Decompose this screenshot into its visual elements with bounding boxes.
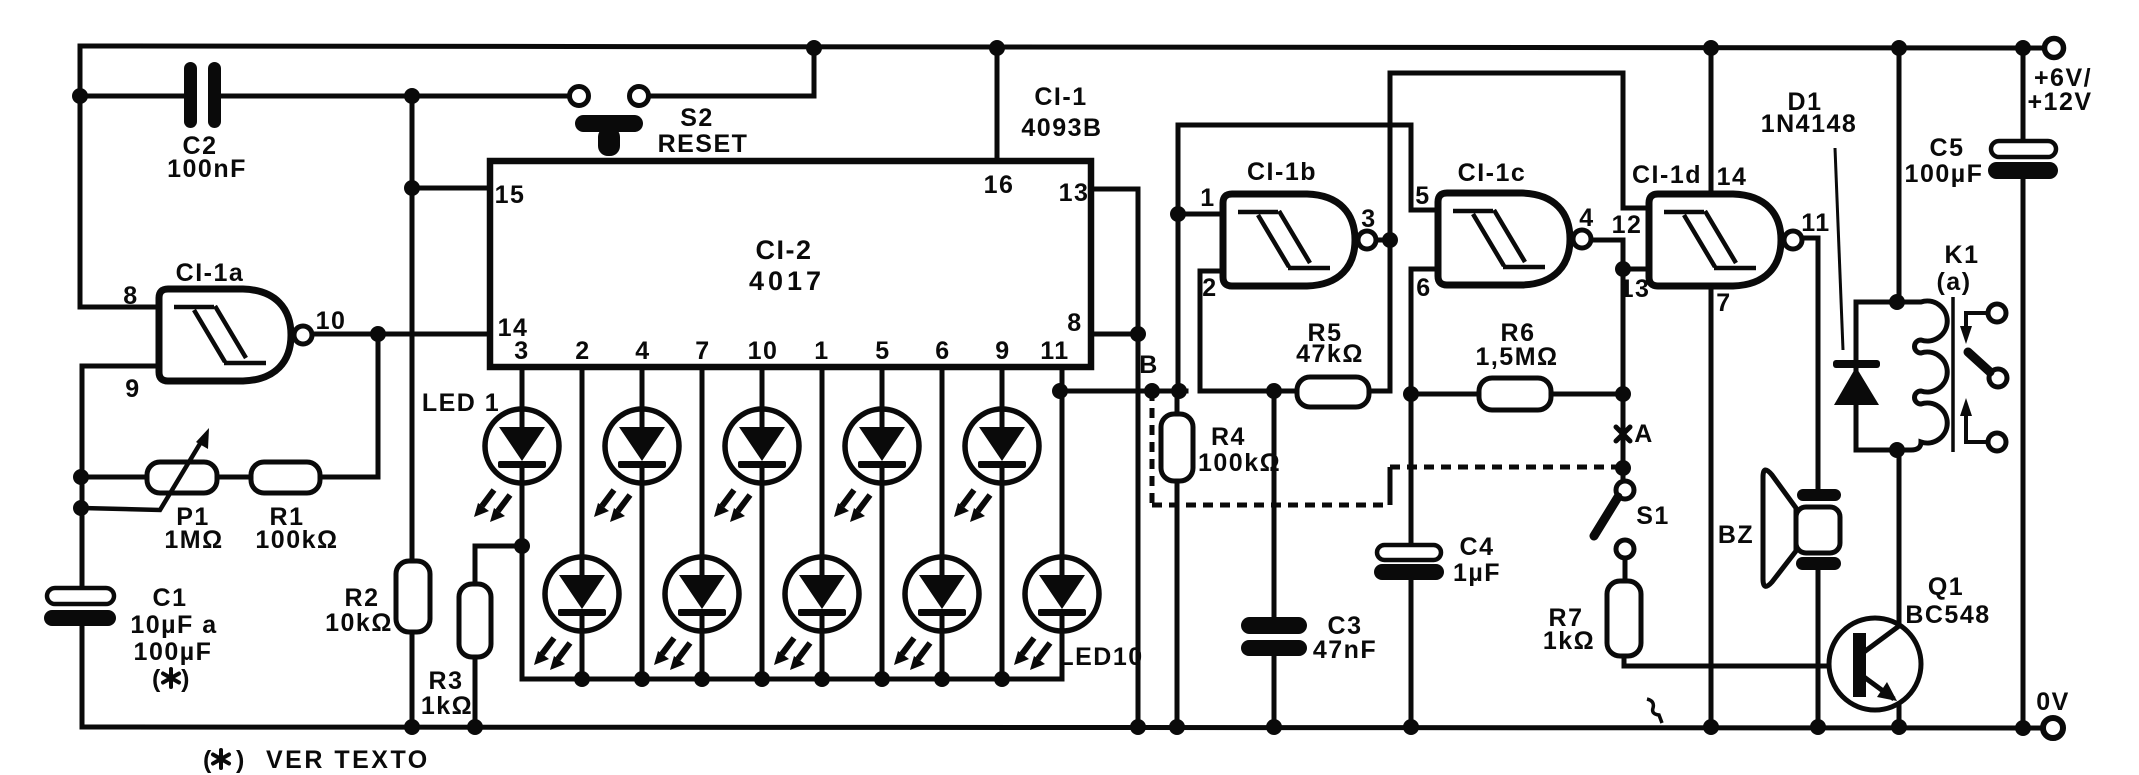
wire pin8 CI-1a [80,305,160,310]
svg-text:10: 10 [316,307,347,335]
svg-text:K1: K1 [1945,241,1980,269]
LED8 [894,557,979,670]
relay K1 armature link line [1951,297,1955,452]
svg-text:6: 6 [1416,274,1431,302]
potentiometer P1 [82,428,217,510]
terminal +6V/+12V [2045,39,2064,58]
capacitor C1 [44,588,116,626]
wire R3 to ground [473,657,478,727]
wire P1 to R1 [217,475,251,480]
svg-text:C5: C5 [1930,134,1965,162]
buzzer BZ [1763,470,1841,586]
svg-text:C4: C4 [1460,533,1495,561]
svg-text:8: 8 [1067,309,1082,337]
wire pin2 CI-1b [1200,271,1222,391]
wire LED column pin7 [700,367,705,679]
wire LED column pin4 [640,367,645,679]
svg-text:7: 7 [695,337,710,365]
svg-text:1kΩ: 1kΩ [1543,627,1595,655]
wire R3 to LED1 line [475,546,522,584]
svg-text:47nF: 47nF [1313,636,1377,664]
svg-text:5: 5 [1415,182,1430,210]
svg-text:(a): (a) [1936,268,1971,296]
svg-text:1µF: 1µF [1453,559,1501,587]
wire left vertical upper [78,46,83,307]
wire C2 line y=96 [80,94,570,99]
star in C1 note [163,669,179,687]
switch S1 [1594,481,1634,558]
svg-text:CI-2: CI-2 [755,235,812,265]
svg-text:7: 7 [1716,289,1731,317]
wire pin6 CI-1c [1411,269,1437,394]
IC CI-2 4017 [490,161,1091,367]
svg-text:100µF: 100µF [134,638,213,666]
svg-text:LED 1: LED 1 [422,389,500,417]
svg-text:2: 2 [1202,274,1217,302]
svg-text:+12V: +12V [2027,88,2092,116]
wire LED column pin10 [760,367,765,679]
svg-text:BC548: BC548 [1905,601,1990,629]
nand gate CI-1c [1438,193,1591,285]
svg-text:0V: 0V [2036,688,2070,716]
relay K1 contacts [1960,304,2007,451]
LED9 [954,409,1039,522]
svg-text:CI-1d: CI-1d [1632,161,1702,189]
wire LED cathode bus [522,677,1062,682]
svg-text:4: 4 [635,337,650,365]
wire node B horizontal [1062,389,1186,394]
wire output11 to buzzer [1805,238,1818,489]
capacitor C2 [184,62,221,128]
wire LED column pin9 [1000,367,1005,679]
svg-text:C1: C1 [153,584,188,612]
resistor R1 [251,462,320,493]
svg-text:11: 11 [1040,337,1069,365]
svg-text:5: 5 [875,337,890,365]
LED10 [1014,557,1099,670]
svg-text:9: 9 [125,375,140,403]
switch S2 [570,87,649,157]
svg-text:A: A [1634,420,1654,448]
svg-text:RESET: RESET [658,130,749,158]
svg-text:R2: R2 [345,584,380,612]
wire output 10 to pin14 [312,332,490,337]
wire S2 to rail [649,48,814,96]
resistor R5 [1297,377,1369,407]
svg-text:13: 13 [1620,275,1651,303]
svg-text:B: B [1139,351,1159,379]
svg-text:100kΩ: 100kΩ [255,526,338,554]
svg-text:1: 1 [814,337,829,365]
svg-text:13: 13 [1059,179,1090,207]
svg-text:S2: S2 [680,104,714,132]
svg-text:BZ: BZ [1718,521,1754,549]
svg-text:1: 1 [1200,184,1215,212]
wire LED column pin2 [580,367,585,679]
wire pin1 CI-1b stub [1178,212,1222,217]
wire C1 to ground [80,626,85,727]
svg-text:2: 2 [575,337,590,365]
wire LED column pin3 [520,367,525,679]
wire pin7 CI-1d to ground [1709,285,1714,727]
resistor R4 [1161,414,1193,481]
wire output3 stub [1377,238,1390,243]
wire C4 leads [1409,394,1414,727]
resistor R6 [1479,378,1551,410]
wire buzzer to ground [1816,570,1821,727]
svg-text:100nF: 100nF [167,155,247,183]
svg-text:1N4148: 1N4148 [1761,110,1858,138]
svg-text:1,5MΩ: 1,5MΩ [1475,343,1558,371]
small print artifact squiggle [1647,699,1662,723]
svg-text:CI-1b: CI-1b [1247,158,1317,186]
wire R6 net [1411,392,1623,397]
capacitor C4 [1374,545,1444,580]
op-amp U1: nand gate CI-1a [159,289,312,381]
wire pin1 CI-1b vertical [1176,125,1181,391]
wire pin16 4017 [995,48,1000,161]
wire C5 leads [2021,48,2026,727]
relay K1 coil [1897,301,1947,450]
svg-text:100µF: 100µF [1905,160,1984,188]
wire P1 left [82,475,147,480]
svg-text:(: ( [203,746,213,774]
terminal 0V [2043,718,2063,738]
wire C3 leads [1272,391,1277,727]
LED4 [654,557,739,670]
svg-text:CI-1c: CI-1c [1458,159,1527,187]
svg-text:10kΩ: 10kΩ [325,609,393,637]
svg-text:(: ( [152,665,162,693]
svg-text:CI-1a: CI-1a [176,259,245,287]
wire R2 top vertical [410,96,415,561]
svg-text:): ) [181,665,191,693]
wire D1 branch [1856,302,1897,450]
wire top supply rail [80,46,2045,48]
nand gate CI-1d [1649,194,1802,286]
capacitor C3 [1241,617,1307,656]
wire output3 vertical riser [1388,73,1393,391]
resistor R3 [459,584,491,657]
wire S1 to R7 [1623,558,1628,581]
wire ground rail [82,727,2044,728]
svg-text:100kΩ: 100kΩ [1198,449,1281,477]
LED7 [834,409,919,522]
svg-text:10µF a: 10µF a [130,611,217,639]
svg-text:6: 6 [935,337,950,365]
svg-text:4093B: 4093B [1021,114,1102,142]
svg-text:1kΩ: 1kΩ [421,692,473,720]
svg-text:47kΩ: 47kΩ [1296,340,1364,368]
svg-text:4017: 4017 [749,266,825,296]
wire LED column pin11 [1060,367,1065,679]
wire relay supply and to collector [1897,48,1902,625]
LED6 [774,557,859,670]
svg-text:8: 8 [123,282,138,310]
LED3 [594,409,679,522]
wire loop output3 to pin12 [1390,73,1648,208]
svg-text:11: 11 [1801,209,1830,237]
wire R7 to Q1 base [1624,656,1853,666]
capacitor C5 [1988,141,2058,179]
svg-text:S1: S1 [1636,502,1670,530]
star in footer note [213,750,229,768]
wire Q1 emitter to ground [1897,703,1902,727]
wire LED column pin5 [880,367,885,679]
nand gate CI-1b [1223,194,1376,286]
wire LED column pin1 [820,367,825,679]
wire LED column pin6 [940,367,945,679]
transistor Q2: Q1 BC548 [1829,618,1921,710]
svg-text:16: 16 [984,171,1015,199]
svg-text:14: 14 [1717,163,1748,191]
diode D1 [1833,148,1880,405]
wire pin8 4017 [1091,332,1138,337]
svg-text:Q1: Q1 [1928,573,1964,601]
svg-text:10: 10 [748,337,779,365]
svg-text:R4: R4 [1211,423,1246,451]
wire R2 bottom [410,632,415,727]
wire output4 to pin13 and A [1592,240,1648,481]
wire pin13 4017 to ground [1091,189,1138,727]
svg-text:VER TEXTO: VER TEXTO [266,746,430,774]
svg-text:3: 3 [1361,205,1376,233]
dashed link node B to point A [1152,391,1617,505]
wire R1 to output node [320,334,378,477]
svg-text:CI-1: CI-1 [1034,83,1087,111]
svg-text:3: 3 [514,337,529,365]
LED5 [714,409,799,522]
resistor R7 [1607,581,1641,656]
wire loop pin1 to pin5 [1178,125,1437,210]
wire pin9 CI-1a [82,366,160,588]
svg-text:1MΩ: 1MΩ [164,526,223,554]
wire pin14 CI-1d to rail [1709,48,1714,194]
wire pin15 4017 [412,186,490,191]
svg-text:9: 9 [995,337,1010,365]
svg-text:12: 12 [1612,211,1643,239]
resistor R2 [396,561,430,632]
svg-text:): ) [236,746,246,774]
svg-text:LED10: LED10 [1058,643,1143,671]
svg-text:15: 15 [495,181,526,209]
LED1 [474,409,559,522]
svg-text:4: 4 [1579,204,1594,232]
wire R5 net [1200,389,1390,394]
node A mark [1616,427,1630,441]
wire R4 leads [1175,391,1180,727]
svg-text:R3: R3 [429,667,464,695]
LED2 [534,557,619,670]
